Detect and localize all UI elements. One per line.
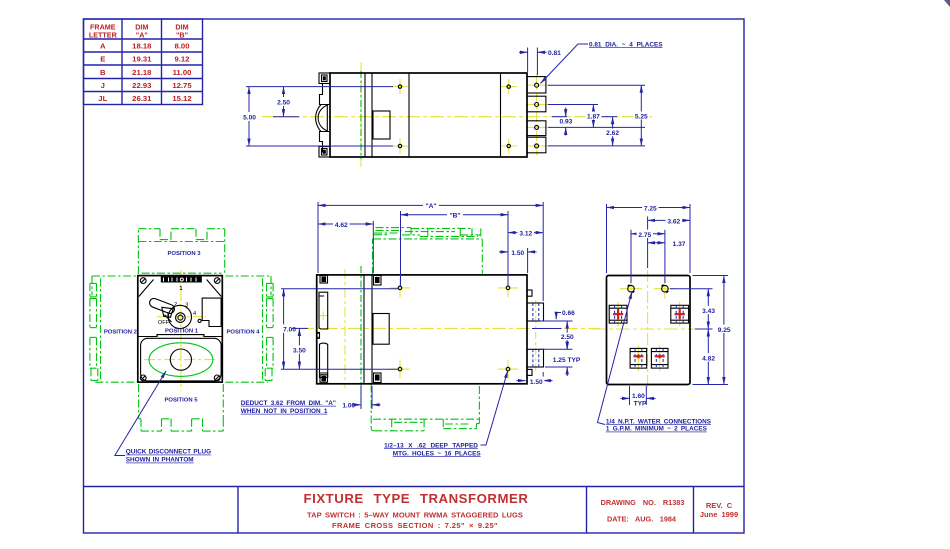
dim 0.66 leader [556, 313, 561, 320]
dim 1.00 ext lines [360, 386, 362, 409]
svg-text:POSITION 2: POSITION 2 [104, 330, 138, 336]
dim 5.00 extension lines [246, 86, 393, 88]
svg-text:1: 1 [166, 312, 169, 318]
front view body [317, 275, 527, 384]
dim A ext left [317, 202, 319, 273]
svg-text:FRAME CROSS SECTION : 7.25" ×: FRAME CROSS SECTION : 7.25" × 9.25" [332, 521, 498, 530]
corner screw 1 [140, 278, 146, 284]
svg-text:8.00: 8.00 [175, 42, 190, 51]
svg-text:A: A [100, 42, 106, 51]
dim 7.25 ext lines [606, 204, 608, 273]
lower clamp block left [630, 348, 647, 368]
top view switch axis yellow centerline [360, 62, 362, 168]
nameplate [161, 277, 202, 283]
dim 3.62 line [648, 219, 690, 221]
svg-text:3.12: 3.12 [519, 231, 532, 238]
dim 2.50 right text [559, 333, 575, 341]
tab2 bottom ext line [545, 366, 573, 368]
svg-text:7.00: 7.00 [283, 327, 296, 334]
frame size table [84, 19, 203, 105]
top view divider 1 [364, 73, 366, 157]
dim 9.25 ext lines [693, 275, 729, 277]
front corner bracket bottom-mid [374, 373, 382, 383]
phantom wing right POSITION 4 [225, 276, 273, 382]
svg-text:FIXTURE TYPE TRANSFORMER: FIXTURE TYPE TRANSFORMER [304, 491, 529, 506]
cavity horizontal centerline [144, 359, 218, 361]
plate top chamfer left [139, 280, 154, 297]
svg-text:15.12: 15.12 [172, 94, 191, 103]
drawing frame border [84, 19, 745, 533]
front left notch marks [318, 333, 319, 337]
switch mid circle [176, 313, 186, 323]
svg-text:5.25: 5.25 [635, 113, 648, 120]
front right tab 1 [527, 303, 544, 321]
svg-text:2: 2 [174, 302, 177, 308]
dim 7.00 ext bottom [281, 368, 398, 370]
terminal block [202, 298, 221, 326]
svg-text:SHOWN IN PHANTOM: SHOWN IN PHANTOM [126, 457, 194, 464]
top view notch rect [373, 111, 390, 139]
svg-text:9.25: 9.25 [718, 327, 731, 334]
svg-text:1.37: 1.37 [673, 241, 686, 248]
dim 4.82 line [707, 329, 709, 385]
dim 7.00 line [283, 289, 285, 369]
dim A/3.12 ext right [542, 202, 544, 301]
front divider 2 [371, 275, 373, 384]
svg-text:1/2–13 X .62 DEEP TAPPED: 1/2–13 X .62 DEEP TAPPED [384, 442, 478, 449]
dim 2.75 ext lines [630, 230, 632, 283]
dim 3.50 line [298, 328, 300, 369]
svg-text:19.31: 19.31 [132, 55, 152, 64]
dim A text [423, 201, 439, 209]
svg-text:"B": "B" [176, 31, 188, 40]
upper clamp red cross left [613, 309, 623, 319]
title block top line [84, 486, 745, 488]
hole crosshair top view 4 [501, 138, 517, 153]
svg-text:1.50: 1.50 [530, 379, 543, 386]
front divider 1 [363, 275, 365, 384]
svg-text:1.00: 1.00 [342, 403, 355, 410]
dim 3.43 ext top [670, 288, 713, 290]
front body holes [398, 286, 510, 371]
dim 3.62 text [666, 216, 683, 224]
phantom wing left POSITION 2 [90, 276, 138, 382]
top view main body [330, 73, 527, 157]
hole crosshair top view 1 [392, 79, 408, 94]
top view left end profile [316, 73, 330, 157]
upper clamp red cross right [675, 309, 685, 319]
lower clamp red bar right [655, 354, 665, 358]
svg-text:0.81: 0.81 [548, 50, 561, 57]
leader 0.81 DIA [541, 44, 589, 84]
end view horizontal centerline [592, 328, 702, 330]
lever pointer shield [162, 307, 174, 317]
front corner bracket top-left [320, 276, 328, 284]
svg-text:0.66: 0.66 [562, 310, 575, 317]
svg-text:3: 3 [185, 302, 188, 308]
front left small notch [317, 332, 320, 338]
hole crosshair front 4 [498, 360, 518, 379]
plate vertical centerline [180, 270, 182, 391]
svg-text:1.50: 1.50 [511, 250, 524, 257]
svg-text:0.81 DIA. ~ 4 PLACES: 0.81 DIA. ~ 4 PLACES [589, 41, 663, 48]
svg-text:1: 1 [179, 286, 182, 292]
corner screw 3 [140, 375, 146, 381]
front left profile lower bracket [320, 343, 328, 377]
dim 3.50 text [291, 345, 307, 353]
svg-text:JL: JL [98, 94, 107, 103]
dim 5.00 line [248, 87, 250, 146]
svg-text:"B": "B" [449, 213, 460, 220]
svg-text:18.18: 18.18 [132, 42, 152, 51]
hole crosshair top view 3 [501, 79, 517, 94]
dim 3.12 line [508, 232, 543, 234]
svg-text:7.25: 7.25 [644, 206, 657, 213]
dim B text [447, 210, 463, 218]
dim 3.62 ext line center [647, 217, 649, 269]
front view horizontal centerline [300, 327, 600, 329]
svg-text:OFF: OFF [158, 320, 170, 326]
svg-text:1.60: 1.60 [632, 393, 645, 400]
dim 4.62 ext right [372, 221, 374, 273]
svg-text:LETTER: LETTER [89, 31, 118, 40]
left bracket yellow dot [319, 311, 328, 319]
svg-text:REV. C: REV. C [706, 501, 733, 510]
tab2 top ext line [540, 348, 573, 350]
dim 1.50 top arrows [499, 251, 508, 253]
svg-text:DEDUCT 3.62 FROM DIM. "A": DEDUCT 3.62 FROM DIM. "A" [241, 400, 336, 407]
svg-text:1.25 TYP: 1.25 TYP [553, 357, 581, 364]
dim 3.50 ext mid [292, 327, 308, 329]
svg-text:12.75: 12.75 [172, 81, 192, 90]
top view divider 3 [408, 73, 410, 157]
svg-text:4.82: 4.82 [702, 355, 715, 362]
svg-text:1.87: 1.87 [587, 113, 600, 120]
hole crosshair front 3 [498, 278, 518, 297]
small circle left of terminal [198, 319, 201, 322]
dim 0.93 approach lines [565, 108, 567, 117]
switch outer circle [168, 305, 191, 328]
top view green phantom line [360, 71, 362, 159]
dim 2.75 line [631, 233, 665, 235]
top view horizontal centerline [262, 116, 652, 118]
svg-text:June 1999: June 1999 [700, 510, 738, 519]
svg-text:WHEN NOT IN POSITION 1: WHEN NOT IN POSITION 1 [241, 408, 328, 415]
svg-text:J: J [101, 81, 105, 90]
tab holes [535, 83, 539, 148]
divider yellow ticks [156, 334, 159, 337]
dim 1.50 bottom text [528, 377, 544, 385]
dim B ext left [400, 211, 402, 286]
block yellow verticals [618, 302, 680, 371]
svg-text:0.93: 0.93 [559, 119, 572, 126]
hole crosshair top view 2 [392, 138, 408, 153]
dim 0.81 arrows [519, 51, 528, 53]
green cover below front view [371, 385, 479, 431]
title block divider 2 [586, 487, 588, 534]
svg-text:2.50: 2.50 [561, 334, 574, 341]
dim 4.82 text [700, 353, 717, 361]
dim 2.75 text [637, 230, 654, 238]
lower clamp block left hidden lines [635, 349, 642, 368]
dim 2.50 text [276, 97, 292, 106]
svg-text:9.12: 9.12 [175, 55, 190, 64]
plate top chamfer right [207, 280, 222, 297]
dim 3.12 text [518, 228, 535, 236]
dim A line [318, 204, 543, 206]
switch bore circle [178, 315, 183, 320]
right dims extension lines [548, 84, 645, 86]
svg-text:E: E [100, 55, 105, 64]
dim 3.43 ext mid [695, 328, 713, 330]
body holes [398, 85, 510, 148]
dim 2.62 text [605, 129, 621, 137]
leader water connections [598, 292, 633, 425]
svg-text:2.50: 2.50 [277, 100, 290, 107]
title block divider 1 [237, 487, 239, 534]
svg-text:POSITION 1: POSITION 1 [165, 329, 199, 335]
centerline blue ext segment [532, 328, 562, 330]
switch lever [148, 297, 175, 315]
svg-text:11.00: 11.00 [173, 68, 192, 77]
svg-text:1 G.P.M. MINIMUM ~ 2 PLAC: 1 G.P.M. MINIMUM ~ 2 PLACES [606, 426, 708, 433]
lower clamp block right [651, 348, 668, 368]
dim 1.50 ext right [527, 248, 529, 273]
svg-text:2.62: 2.62 [606, 130, 619, 137]
dim 9.25 line [723, 276, 725, 385]
green cover above front view [373, 228, 483, 275]
svg-text:DRAWING NO. R1383: DRAWING NO. R1383 [601, 498, 685, 507]
leader tapped holes [481, 370, 508, 445]
dim 3.43 line [707, 289, 709, 329]
svg-text:3.43: 3.43 [702, 308, 715, 315]
corner screw 2 [214, 278, 220, 284]
dim 2.62 line [612, 117, 614, 146]
leader quick disconnect [115, 371, 166, 456]
dim 1.25 arrows [566, 340, 568, 349]
corner screw 4 [214, 375, 220, 381]
dim 3.43 text [700, 306, 717, 314]
phantom wing top POSITION 3 [138, 229, 224, 274]
svg-text:TAP SWITCH : 5–WAY MOUNT RWMA: TAP SWITCH : 5–WAY MOUNT RWMA STAGGERED … [307, 511, 523, 520]
upper clamp block right [671, 305, 689, 323]
front view switch axis yellow centerline [344, 269, 346, 388]
dim 5.00 text [242, 112, 258, 121]
dim 1.60 text [631, 392, 646, 400]
dim 4.62 text [333, 220, 350, 228]
end view vertical centerline [647, 270, 649, 390]
dim B/3.12 ext [507, 211, 509, 286]
dim 7.25 text [642, 203, 659, 211]
top view connector tabs [527, 77, 546, 153]
front right small tab top [527, 290, 532, 296]
dim 2.50 right line [566, 321, 568, 349]
water connection hole right [662, 285, 669, 293]
front tab centerline vertical dashes [535, 300, 537, 371]
switch horizontal centerline [157, 316, 206, 318]
front right small tab bottom [527, 369, 532, 375]
svg-text:3.50: 3.50 [293, 348, 306, 355]
dim 5.25 line [640, 85, 642, 146]
top view divider 4 [500, 73, 502, 157]
dim 2.50 ext at centerline [273, 116, 299, 118]
lever lower edge line [165, 315, 172, 322]
svg-text:QUICK DISCONNECT PLUG: QUICK DISCONNECT PLUG [126, 449, 211, 456]
lower clamp block right hidden lines [656, 349, 663, 368]
dim 1.37 line [648, 242, 665, 244]
svg-text:26.31: 26.31 [132, 94, 152, 103]
end view body [607, 276, 691, 385]
svg-text:4: 4 [193, 311, 196, 317]
front notch rect [373, 314, 389, 345]
tab hole crosshairs yellow [526, 85, 548, 146]
dim 7.25 line [607, 207, 691, 209]
dim 0.81 ext lines [527, 48, 529, 73]
top view divider 2 [371, 73, 373, 157]
dim 7.00 ext top [281, 288, 398, 290]
cavity rounded rect [141, 338, 222, 381]
svg-text:POSITION 4: POSITION 4 [226, 330, 260, 336]
dim B line [401, 214, 509, 216]
dim 1.87 text [585, 112, 601, 120]
svg-text:2.75: 2.75 [638, 232, 651, 239]
plate divider line [138, 335, 223, 337]
svg-text:22.93: 22.93 [132, 81, 151, 90]
dim 1.60 ext lines [629, 386, 631, 405]
dim 4.62 line [318, 223, 373, 225]
svg-text:POSITION 5: POSITION 5 [164, 398, 198, 404]
svg-text:TYP: TYP [634, 400, 647, 407]
front right tab 2 [527, 349, 544, 367]
top view tab column centerline [536, 74, 538, 155]
tab1 hidden lines [533, 303, 539, 367]
dim 1.50 bottom ext [542, 372, 544, 385]
svg-text:"A": "A" [136, 31, 148, 40]
dim 1.87 line [592, 105, 594, 128]
dim 9.25 text [716, 325, 733, 333]
hole crosshair front 2 [390, 360, 410, 379]
front corner bracket bottom-left [320, 375, 328, 383]
scan artifact top-right corner [944, 0, 950, 7]
svg-text:B: B [100, 68, 106, 77]
dim 1.50 bottom arrows [517, 380, 526, 382]
svg-text:MTG. HOLES ~ 16 PLACES: MTG. HOLES ~ 16 PLACES [393, 450, 482, 457]
front left profile upper bracket [319, 292, 328, 329]
cavity green oval [149, 343, 213, 377]
lower clamp red bar left [633, 354, 643, 358]
plug circle [170, 349, 191, 370]
dim 1.60 arrows [621, 397, 630, 399]
dim 5.25 text [633, 112, 649, 120]
upper clamp block right hidden lines [676, 306, 683, 323]
green phantom vertical through body [360, 266, 362, 409]
water hole crosshair right [654, 279, 676, 300]
svg-text:5.00: 5.00 [243, 115, 256, 122]
svg-text:"A": "A" [425, 203, 436, 210]
svg-text:3.62: 3.62 [667, 218, 680, 225]
water hole crosshair left [620, 279, 642, 300]
water connection hole left [628, 285, 635, 293]
svg-text:POSITION 3: POSITION 3 [167, 251, 201, 257]
svg-text:4.62: 4.62 [335, 222, 348, 229]
switch plate outline [138, 276, 223, 383]
dim 1.00 arrows [353, 404, 362, 406]
front corner bracket top-mid [374, 276, 382, 286]
dim 2.50 line [283, 87, 285, 117]
svg-text:DATE: AUG. 1984: DATE: AUG. 1984 [607, 515, 677, 524]
phantom wing bottom POSITION 5 [139, 384, 224, 431]
upper clamp block left [609, 305, 627, 323]
svg-text:21.18: 21.18 [132, 68, 152, 77]
hole crosshair front 1 [390, 278, 410, 297]
title block divider 3 [693, 487, 695, 534]
svg-text:1/4 N.P.T. WATER CONNECTION: 1/4 N.P.T. WATER CONNECTIONS [606, 418, 712, 425]
upper clamp block left hidden lines [615, 306, 622, 323]
dim 7.00 text [282, 324, 298, 332]
tab1 bottom ext line [540, 320, 573, 322]
